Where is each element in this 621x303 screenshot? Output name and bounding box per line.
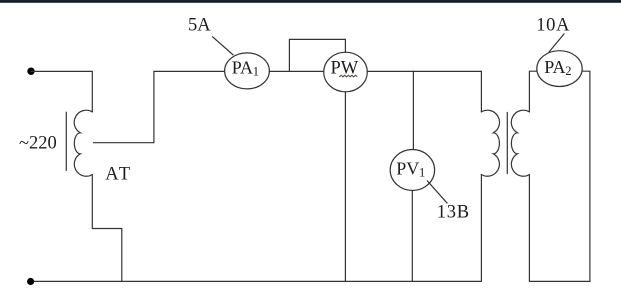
wire: top-left terminal to AT top	[31, 71, 92, 111]
wire: PW bottom to bottom rail	[344, 92, 346, 282]
wire: AT bottom to bottom rail (with jog)	[92, 175, 122, 282]
wire: PA2 right down to secondary bottom rail	[529, 71, 590, 281]
ammeter PA2	[537, 51, 582, 87]
voltmeter PV1	[390, 150, 434, 191]
node: bottom-left input terminal	[27, 278, 34, 285]
svg-text:~220: ~220	[19, 134, 57, 154]
node: top-left input terminal	[27, 68, 34, 75]
transformer secondary winding	[511, 110, 529, 176]
ammeter PA1	[225, 53, 270, 89]
label line: 5A leader	[213, 37, 233, 55]
svg-text:10A: 10A	[536, 16, 570, 36]
autotransformer AT core bar	[65, 112, 67, 170]
wire: PW to transformer primary	[367, 70, 481, 72]
wire: secondary top to PA2 left	[529, 71, 536, 112]
wire: PV1 bottom to bottom rail	[411, 191, 413, 282]
transformer core bar	[506, 113, 508, 174]
label line: 10A leader	[549, 34, 564, 52]
svg-text:5A: 5A	[188, 16, 211, 36]
wire: junction down to PV1	[412, 71, 414, 149]
squiggle: spellcheck underline under PW	[339, 75, 357, 77]
wire: AT tap up to top rail toward PA1	[94, 71, 225, 142]
wire: PA1 to PW	[269, 70, 323, 72]
svg-text:13B: 13B	[437, 203, 470, 223]
svg-text:AT: AT	[105, 164, 132, 184]
autotransformer AT winding	[74, 110, 92, 176]
wire: wattmeter voltage-coil loop	[289, 39, 345, 71]
wattmeter PW	[324, 52, 368, 92]
wire: top rail corner down to transformer primary winding	[480, 71, 482, 111]
wire: transformer primary bottom to bottom rail	[480, 175, 482, 282]
wire: bottom rail of primary circuit	[31, 280, 481, 282]
transformer primary winding	[481, 110, 499, 176]
label line: 13B leader	[428, 181, 448, 203]
